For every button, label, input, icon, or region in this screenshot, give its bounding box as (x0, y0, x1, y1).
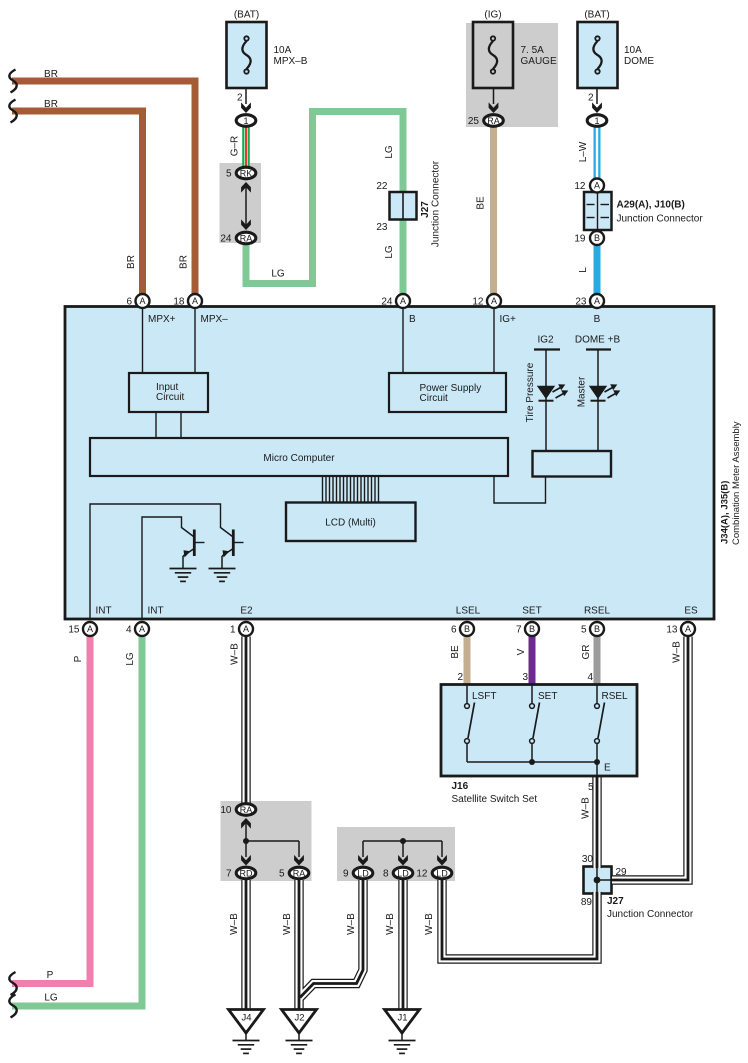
wire break (P) (9, 972, 16, 995)
svg-text:B: B (594, 314, 601, 325)
pin 13 A (ES) (666, 622, 695, 636)
connector terminal 1 (from fuse F1) (236, 115, 256, 127)
svg-text:LCD (Multi): LCD (Multi) (325, 518, 376, 529)
svg-text:LD: LD (436, 869, 448, 879)
svg-text:A: A (594, 296, 600, 306)
svg-text:SET: SET (522, 606, 541, 617)
satellite switch set J16 box (441, 685, 637, 777)
wire IG+ internal (pin 12A to power supply) (493, 308, 495, 373)
pin 12 A (IG+) (472, 294, 501, 308)
svg-text:15: 15 (68, 625, 80, 636)
wire BR to MPX+ (pin 6) (12, 111, 143, 294)
svg-text:7: 7 (516, 625, 522, 636)
svg-text:12: 12 (574, 181, 586, 192)
svg-text:LG: LG (44, 993, 58, 1004)
svg-text:B: B (529, 624, 535, 634)
wire MPX+ internal (142, 308, 144, 373)
wire W-B (5RA and 9LD to ground J2) (299, 880, 363, 1012)
svg-text:6: 6 (126, 297, 132, 308)
svg-text:L–W: L–W (578, 141, 589, 162)
wire break (LG) (9, 995, 16, 1018)
wire BR to MPX- (pin 18) (12, 81, 195, 294)
svg-text:Master: Master (577, 376, 588, 407)
svg-text:1: 1 (594, 116, 599, 126)
svg-text:A: A (685, 624, 691, 634)
svg-text:1: 1 (230, 625, 236, 636)
wire LG (24RA via J27 to pin 24A) (246, 112, 403, 295)
svg-text:BR: BR (44, 99, 58, 110)
wire switch common bus to node E (467, 759, 600, 777)
svg-text:MPX–B: MPX–B (274, 56, 308, 67)
svg-text:LSFT: LSFT (472, 691, 496, 702)
svg-text:LSEL: LSEL (456, 606, 481, 617)
svg-text:Junction Connector: Junction Connector (607, 909, 694, 920)
connector terminal 7 RD (236, 867, 256, 879)
wire branch node (E2 to RD/RA) (243, 838, 299, 857)
label J27 junction connector (upper) (420, 160, 442, 247)
switch RSEL (595, 685, 605, 762)
combination meter assembly J34(A), J35(B) box (65, 307, 714, 620)
svg-text:J16: J16 (452, 781, 469, 792)
svg-text:W–B: W–B (581, 797, 592, 819)
shading block (RK/RA connector pair) (220, 163, 262, 243)
svg-text:B: B (464, 624, 470, 634)
wire B internal (pin 24A to power supply) (402, 308, 404, 373)
svg-text:MPX+: MPX+ (148, 314, 176, 325)
connector terminal 19 B (590, 231, 604, 245)
svg-text:J1: J1 (397, 1013, 407, 1024)
svg-text:3: 3 (522, 672, 528, 683)
svg-text:23: 23 (575, 297, 587, 308)
svg-text:P: P (47, 970, 54, 981)
svg-text:Junction Connector: Junction Connector (431, 160, 442, 247)
svg-text:7: 7 (226, 869, 232, 880)
wire W-B (7RD to ground J4) (241, 880, 250, 1012)
connector terminal 1 (from fuse F3) (587, 115, 607, 127)
connector terminal 8 LD (393, 867, 413, 879)
svg-text:GR: GR (581, 645, 592, 660)
power supply circuit block (389, 373, 506, 412)
svg-text:J2: J2 (294, 1013, 304, 1024)
svg-text:1: 1 (243, 116, 248, 126)
transistor Q1 (182, 528, 205, 569)
svg-text:BR: BR (44, 69, 58, 80)
label input circuit (156, 382, 185, 403)
svg-text:A: A (594, 181, 600, 191)
label J27 junction connector (lower) (607, 896, 694, 920)
connector terminal 12 A (590, 179, 604, 193)
svg-text:BE: BE (450, 645, 461, 659)
wire break (BR upper) (9, 70, 16, 93)
pin 24 A (B) (381, 294, 410, 308)
ground J4 (229, 1010, 264, 1054)
connector terminal 12 LD (432, 867, 452, 879)
wire L (junction 19B to pin 23A) (594, 245, 601, 294)
wire W-B (J16 E via J27 to 12LD) (442, 777, 597, 959)
svg-text:W–B: W–B (385, 913, 396, 935)
pin 5 B (RSEL) (581, 622, 604, 636)
svg-text:DOME: DOME (624, 56, 654, 67)
pin 23 A (B) (575, 294, 604, 308)
pin 4 A (INT) (126, 622, 149, 636)
svg-text:MPX–: MPX– (201, 314, 229, 325)
svg-text:G–R: G–R (230, 136, 241, 157)
connector terminal 24 RA (236, 232, 256, 244)
svg-text:LG: LG (125, 652, 136, 666)
svg-text:B: B (594, 624, 600, 634)
svg-text:4: 4 (126, 625, 132, 636)
svg-text:25: 25 (468, 116, 480, 127)
wire micro computer to led driver block (494, 476, 546, 503)
svg-text:5: 5 (581, 625, 587, 636)
ground (Q2 emitter) (209, 569, 236, 582)
connector terminal 9 LD (353, 867, 373, 879)
ground J2 (282, 1010, 317, 1054)
pin 18 A (MPX-) (173, 294, 202, 308)
svg-text:SET: SET (538, 691, 557, 702)
wire INT (pin 15A) to transistor Q2 (90, 504, 221, 619)
svg-text:RA: RA (293, 869, 306, 879)
svg-text:P: P (73, 655, 84, 662)
svg-text:A: A (243, 624, 249, 634)
svg-text:GAUGE: GAUGE (521, 56, 557, 67)
svg-text:W–B: W–B (282, 913, 293, 935)
svg-text:10: 10 (220, 805, 232, 816)
svg-text:V: V (516, 648, 527, 655)
wire V (pin 7B SET to J16) (529, 636, 536, 686)
input circuit block (129, 373, 208, 412)
svg-text:A: A (400, 296, 406, 306)
arrow fuse F1 to terminal 1 (241, 89, 251, 113)
svg-text:Satellite Switch Set: Satellite Switch Set (452, 794, 538, 805)
arrow into terminal 10 RA (up) (241, 818, 251, 841)
wire IG2 to LED (545, 350, 547, 452)
label power supply circuit (420, 383, 482, 404)
connector terminal 25 RA (484, 115, 504, 127)
svg-text:LD: LD (397, 869, 409, 879)
pin 6 B (LSEL) (451, 622, 474, 636)
svg-text:RA: RA (487, 116, 500, 126)
LED tire pressure (537, 384, 569, 401)
wire GR (pin 5B RSEL to J16) (594, 636, 601, 686)
svg-text:Junction Connector: Junction Connector (617, 214, 704, 225)
junction connector J27 node and pin 29 link (585, 868, 612, 892)
wire BE (pin 6B LSEL to J16) (464, 636, 471, 686)
svg-text:24: 24 (381, 297, 393, 308)
svg-text:RSEL: RSEL (584, 606, 611, 617)
svg-text:24: 24 (220, 234, 232, 245)
svg-text:29: 29 (616, 867, 628, 878)
svg-text:A: A (192, 296, 198, 306)
svg-text:22: 22 (376, 181, 388, 192)
svg-text:A: A (139, 296, 145, 306)
svg-text:Combination Meter Assembly: Combination Meter Assembly (731, 421, 742, 545)
svg-text:5: 5 (226, 169, 232, 180)
svg-text:RA: RA (240, 805, 253, 815)
svg-text:W–B: W–B (424, 913, 435, 935)
fuse F3 10A DOME (578, 22, 618, 88)
label J34(A), J35(B) combination meter assembly (720, 421, 743, 545)
label J16 satellite switch set (452, 781, 538, 805)
svg-text:9: 9 (343, 869, 349, 880)
svg-text:J4: J4 (241, 1013, 251, 1024)
svg-text:BE: BE (476, 196, 487, 210)
svg-text:RA: RA (240, 234, 253, 244)
svg-text:23: 23 (376, 222, 388, 233)
svg-text:2: 2 (457, 672, 463, 683)
switch SET (530, 685, 540, 762)
svg-text:(BAT): (BAT) (234, 10, 259, 21)
svg-text:89: 89 (581, 897, 593, 908)
node IG2 terminal bar (534, 348, 560, 350)
svg-text:19: 19 (574, 234, 586, 245)
arrow into terminal 8 LD (398, 855, 408, 866)
svg-text:A: A (491, 296, 497, 306)
wire P (pin 15A INT) (12, 637, 90, 984)
wire INT (pin 4A) to transistor Q1 (142, 517, 182, 619)
connector terminal 5 RA (289, 867, 309, 879)
svg-text:Micro Computer: Micro Computer (263, 453, 335, 464)
svg-text:ES: ES (684, 606, 698, 617)
arrow fuse F3 to terminal 1 (592, 89, 602, 113)
wire W-B (8LD to ground J1) (398, 880, 407, 1012)
ground J1 (385, 1010, 420, 1054)
svg-text:Tire Pressure: Tire Pressure (525, 362, 536, 422)
arrow into terminal 5 RA (294, 855, 304, 866)
wire MPX- internal (194, 308, 196, 373)
svg-text:18: 18 (173, 297, 185, 308)
svg-text:B: B (594, 233, 600, 243)
led driver block (533, 451, 612, 477)
svg-text:J34(A), J35(B): J34(A), J35(B) (720, 481, 731, 544)
svg-text:J27: J27 (607, 896, 624, 907)
LED master (589, 384, 621, 401)
junction connector J27 (lower) box (584, 867, 612, 894)
svg-text:E: E (604, 763, 611, 774)
svg-text:12: 12 (416, 869, 428, 880)
svg-text:J27: J27 (420, 201, 431, 218)
svg-text:LG: LG (271, 269, 285, 280)
wire W-B (pin 1A E2 to 10RA) (241, 637, 250, 804)
arrow into terminal 12 LD (437, 855, 447, 866)
svg-text:5: 5 (588, 782, 594, 793)
svg-text:DOME +B: DOME +B (575, 335, 621, 346)
svg-text:W–B: W–B (230, 643, 241, 665)
svg-text:IG+: IG+ (500, 314, 517, 325)
wire LD common link (363, 838, 442, 857)
svg-text:4: 4 (587, 672, 593, 683)
micro computer block (90, 438, 508, 476)
wire L-W (DOME fuse to junction 12A) (594, 126, 601, 179)
svg-text:LG: LG (384, 145, 395, 159)
svg-text:5: 5 (279, 869, 285, 880)
wire DOME +B to LED (597, 350, 599, 452)
svg-text:30: 30 (582, 854, 594, 865)
svg-text:BR: BR (126, 255, 137, 269)
svg-text:RSEL: RSEL (602, 691, 629, 702)
switch LSFT (465, 685, 475, 762)
lcd (multi) block (286, 503, 416, 542)
wire break (BR lower) (9, 100, 16, 123)
transistor Q2 (221, 528, 244, 569)
svg-text:7. 5A: 7. 5A (521, 45, 545, 56)
svg-text:BR: BR (179, 255, 190, 269)
double arrow RK to RA (241, 182, 251, 230)
arrow into terminal 9 LD (358, 855, 368, 866)
shading block (10RA/7RD/5RA connector group) (221, 801, 312, 881)
svg-text:Circuit: Circuit (420, 393, 449, 404)
connector terminal 5 RK (236, 167, 256, 179)
svg-text:A29(A), J10(B): A29(A), J10(B) (617, 200, 685, 211)
wire input circuit to micro computer (left) (155, 412, 157, 438)
svg-text:Circuit: Circuit (156, 392, 185, 403)
svg-text:(BAT): (BAT) (584, 10, 609, 21)
pin 1 A (E2) (230, 622, 253, 636)
svg-text:L: L (578, 267, 589, 273)
arrow into terminal 7 RD (241, 855, 251, 866)
pin 15 A (INT) (68, 622, 97, 636)
svg-text:8: 8 (383, 869, 389, 880)
wire input circuit to micro computer (right) (180, 412, 182, 438)
svg-text:A: A (87, 624, 93, 634)
svg-text:W–B: W–B (672, 641, 683, 663)
junction connector J27 (upper, LG) (390, 192, 417, 220)
pin 6 A (MPX+) (126, 294, 149, 308)
fuse F1 10A MPX-B (227, 22, 267, 88)
wire LG (pin 4A INT) (12, 637, 142, 1007)
svg-text:2: 2 (588, 93, 594, 104)
lcd bus (hatched lines) (323, 477, 379, 502)
wire G-R (fuse 1 to RK) (242, 126, 250, 167)
svg-text:INT: INT (96, 606, 112, 617)
svg-text:A: A (139, 624, 145, 634)
wire W-B (pin 13A ES to J27 pin 29) (612, 637, 688, 881)
svg-text:LG: LG (384, 245, 395, 259)
svg-text:B: B (409, 314, 416, 325)
svg-text:RK: RK (240, 169, 253, 179)
svg-text:12: 12 (472, 297, 484, 308)
svg-text:6: 6 (451, 625, 457, 636)
svg-text:RD: RD (240, 869, 253, 879)
svg-text:IG2: IG2 (537, 335, 554, 346)
svg-text:W–B: W–B (346, 913, 357, 935)
label A29(A), J10(B) junction connector (617, 200, 704, 225)
wire BE (gauge fuse 25RA to pin 12A IG+) (490, 126, 497, 294)
fuse F2 7.5A GAUGE (473, 22, 513, 88)
pin 7 B (SET) (516, 622, 539, 636)
ground (Q1 emitter) (170, 569, 197, 582)
svg-text:LD: LD (357, 869, 369, 879)
svg-text:E2: E2 (240, 606, 253, 617)
connector terminal 10 RA (236, 804, 256, 816)
junction connector A29(A), J10(B) (584, 192, 612, 230)
shading block (LD connector group) (337, 827, 455, 881)
shading block (IG gauge fuse) (466, 23, 558, 127)
svg-text:10A: 10A (624, 45, 642, 56)
svg-text:13: 13 (666, 625, 678, 636)
node DOME +B terminal bar (586, 348, 611, 350)
svg-text:INT: INT (148, 606, 164, 617)
svg-text:W–B: W–B (229, 913, 240, 935)
svg-text:(IG): (IG) (484, 10, 501, 21)
svg-text:10A: 10A (274, 45, 292, 56)
svg-text:2: 2 (237, 93, 243, 104)
arrow fuse F2 to terminal 25 (489, 89, 499, 113)
